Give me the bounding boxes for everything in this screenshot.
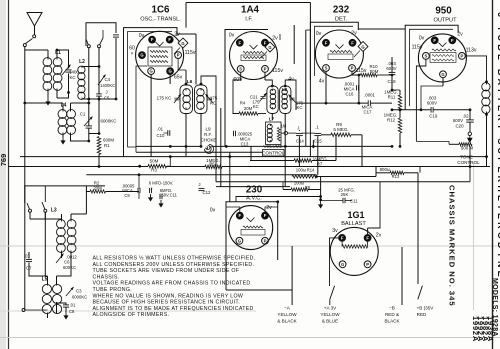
- wire 950 G down: [420, 78, 443, 112]
- terminal +A: [320, 285, 340, 324]
- svg-text:G: G: [441, 72, 444, 77]
- choke L9 spiral: [204, 144, 213, 153]
- coil L5 secondary: [53, 276, 62, 314]
- coil L4 label: [61, 103, 67, 109]
- label J C12: [198, 182, 211, 195]
- IFT1 box right: [195, 85, 208, 114]
- tube 1A4 title: [241, 5, 260, 23]
- coil L1 secondary: [53, 50, 62, 98]
- svg-text:J: J: [297, 126, 299, 131]
- bus y166: [9, 165, 491, 168]
- label .01 C7: [24, 254, 32, 271]
- svg-text:4v: 4v: [288, 77, 294, 83]
- label 2v 1G1: [376, 232, 382, 238]
- IFT1 primary coil: [183, 89, 190, 110]
- pin F1 232: [323, 39, 330, 46]
- ground mid: [318, 198, 323, 208]
- IFT2 secondary coil: [282, 89, 288, 109]
- svg-text:R4: R4: [240, 101, 246, 106]
- svg-text:CONTROL: CONTROL: [262, 151, 284, 156]
- pin G 1G1: [339, 261, 346, 268]
- svg-text:1992A: 1992A: [471, 316, 480, 342]
- resistor R12 1MEG: [384, 109, 402, 148]
- label 115v 950: [412, 45, 423, 51]
- wire IFT1 primary top: [177, 34, 196, 85]
- resistor R4: [239, 112, 258, 115]
- svg-text:G: G: [149, 69, 152, 74]
- wire L1 sec bottom: [57, 91, 70, 98]
- svg-text:R12: R12: [387, 117, 396, 122]
- svg-text:2v: 2v: [351, 31, 357, 37]
- pin P 232: [349, 65, 356, 72]
- tube 1A4 envelope: [230, 32, 278, 80]
- model 1992A: [476, 316, 485, 342]
- svg-text:R11: R11: [388, 94, 396, 99]
- coil L4 primary: [58, 103, 67, 134]
- title 6 TUBE BATTERY SUPERHETERODYNE: [496, 12, 500, 280]
- pin G 950: [440, 71, 447, 78]
- label C4: [105, 77, 111, 82]
- svg-text:L5: L5: [42, 277, 48, 283]
- capacitor C15: [314, 125, 322, 144]
- bus y146: [136, 145, 393, 148]
- svg-text:BECAUSE OF HIGH SERIES RESISTA: BECAUSE OF HIGH SERIES RESISTANCE IN CIR…: [93, 300, 241, 306]
- faint fold line bottom: [0, 337, 500, 339]
- svg-text:C1: C1: [80, 112, 86, 117]
- capacitor C16: [344, 82, 359, 97]
- bus y152: [136, 151, 262, 153]
- pin F2 230: [262, 207, 278, 219]
- 950 internal elements: [430, 43, 456, 63]
- svg-text:5 MEG.: 5 MEG.: [333, 127, 348, 132]
- svg-text:230: 230: [246, 185, 263, 196]
- svg-text:.01: .01: [157, 127, 164, 132]
- svg-text:F: F: [239, 213, 242, 218]
- capacitor C9 mica: [122, 173, 141, 199]
- svg-text:RED: RED: [417, 312, 427, 317]
- coil L3 secondary: [67, 214, 76, 258]
- svg-text:F: F: [264, 40, 267, 45]
- svg-text:C9: C9: [124, 193, 130, 198]
- coil L5 label: [42, 277, 48, 283]
- wire bus y185.9: [25, 186, 105, 214]
- svg-text:0v: 0v: [229, 33, 235, 39]
- wire R7: [250, 156, 336, 166]
- svg-text:2v: 2v: [266, 205, 272, 211]
- pin P 1G1: [364, 261, 371, 268]
- wires between 1A4 and 232: [294, 22, 310, 156]
- wire top bus left: [86, 23, 116, 46]
- 1C6 internal elements: [148, 42, 172, 66]
- wire P232 to R10: [352, 71, 361, 76]
- svg-text:232: 232: [333, 5, 350, 16]
- tube 1C6 title: [140, 5, 181, 23]
- capacitor C17: [362, 92, 376, 114]
- label 115v 232: [356, 68, 367, 74]
- svg-text:C8: C8: [69, 309, 75, 314]
- svg-text:C20: C20: [455, 123, 464, 128]
- tube 232 envelope: [315, 30, 363, 78]
- svg-text:1400KC: 1400KC: [100, 83, 115, 88]
- svg-text:L9: L9: [205, 127, 211, 132]
- label TONE CONTROL: [457, 154, 480, 165]
- capacitor C7: [26, 252, 32, 272]
- svg-text:YELLOW: YELLOW: [277, 312, 297, 317]
- svg-text:0v: 0v: [210, 207, 216, 213]
- svg-text:OUTPUT: OUTPUT: [434, 18, 458, 24]
- pin G 230: [236, 237, 243, 244]
- label .01 C8: [69, 303, 76, 315]
- svg-text:G: G: [168, 69, 171, 74]
- svg-text:P: P: [351, 66, 354, 71]
- svg-text:P: P: [264, 67, 267, 72]
- tube 232 title: [333, 5, 350, 23]
- svg-text:C17: C17: [364, 110, 372, 115]
- svg-text:2v: 2v: [376, 232, 382, 238]
- label 6000KC: [101, 119, 117, 124]
- svg-text:KC: KC: [210, 101, 216, 106]
- model 1992A second: [471, 316, 480, 342]
- label 115v 1C6: [185, 50, 196, 56]
- svg-text:769: 769: [0, 154, 8, 167]
- svg-text:C7: C7: [26, 266, 32, 271]
- trimmer IFT1 right: [206, 94, 218, 106]
- choke L9 label: [201, 127, 217, 143]
- svg-text:6000KC: 6000KC: [72, 295, 87, 300]
- svg-text:C12: C12: [203, 190, 211, 195]
- capacitor C14: [288, 126, 305, 144]
- trimmer C1: [80, 112, 93, 127]
- wire IFT1 bottoms: [185, 114, 203, 157]
- svg-text:113v: 113v: [466, 48, 477, 54]
- wire 1G1 wiring: [368, 182, 380, 235]
- volume coil L7: [267, 124, 272, 142]
- tube 950 shield box: [405, 25, 458, 110]
- svg-text:1G1: 1G1: [347, 210, 364, 220]
- svg-text:F: F: [168, 37, 171, 42]
- svg-text:1C6: 1C6: [152, 5, 171, 16]
- wires 1C6 pins down: [136, 59, 186, 158]
- pin F1 1C6: [149, 36, 156, 43]
- svg-text:R13: R13: [392, 174, 400, 179]
- resistor R8 100ohm: [283, 180, 321, 191]
- capacitor C19 .003 600V: [427, 96, 438, 119]
- 1A4 internal elements: [241, 45, 266, 61]
- wire L1 sec top: [56, 49, 69, 55]
- label 113v 950: [466, 48, 477, 54]
- svg-text:100ω: 100ω: [294, 180, 305, 185]
- pin P 1C6: [175, 52, 182, 59]
- pin P 1A4: [262, 66, 269, 73]
- wire L2 bus join: [98, 98, 101, 101]
- label 0v 230: [210, 207, 216, 213]
- svg-text:2v: 2v: [272, 36, 278, 42]
- wire terminals feed: [226, 246, 292, 290]
- svg-text:F: F: [433, 38, 436, 43]
- wire IFT1 sec top: [200, 76, 216, 103]
- pin F2 1C6: [166, 36, 173, 43]
- IFT2 box left: [267, 86, 278, 114]
- svg-text:R1: R1: [104, 143, 110, 148]
- capacitor C4 trimmer: [98, 35, 119, 101]
- tube 230 box: [226, 200, 279, 290]
- wires IFT2 bottoms: [272, 114, 285, 127]
- svg-text:P: P: [264, 238, 267, 243]
- tube 230 envelope: [229, 206, 273, 250]
- svg-text:C19: C19: [429, 114, 438, 119]
- label 600M R1: [103, 138, 114, 149]
- model 1982A: [481, 316, 490, 342]
- svg-text:20M: 20M: [244, 106, 253, 111]
- resistor R3 50M: [148, 155, 172, 172]
- svg-text:C13: C13: [241, 141, 249, 146]
- IFT2 box right: [280, 86, 291, 114]
- svg-text:J: J: [106, 90, 108, 95]
- wire 950 S down: [416, 59, 426, 141]
- ground C8: [63, 312, 68, 320]
- wire avc bus y103: [296, 102, 392, 104]
- capacitor C10 .01: [157, 127, 170, 139]
- wire R4 left: [233, 95, 266, 114]
- resistor R10 50M: [361, 64, 379, 77]
- coil L3 primary: [57, 214, 66, 258]
- wire switch buses down: [89, 48, 99, 133]
- tube 950 envelope: [418, 34, 466, 82]
- tube 1C6 shield box: [124, 28, 178, 157]
- pin P 230: [262, 237, 269, 244]
- wire antenna down: [24, 47, 26, 203]
- svg-text:F: F: [341, 236, 344, 241]
- svg-text:S: S: [325, 66, 328, 71]
- svg-text:G: G: [341, 262, 344, 267]
- svg-text:C4: C4: [105, 77, 111, 82]
- bus y174.8: [86, 174, 316, 176]
- wire 232 box to 950 box: [358, 28, 405, 30]
- resistor R11 1MEG: [384, 89, 402, 110]
- resistor 100ohm R6: [282, 182, 284, 190]
- wire L4 sec bottom: [71, 134, 89, 141]
- page number 769: [0, 154, 8, 167]
- tube 232 shield box: [310, 22, 358, 80]
- pin F1 230: [226, 207, 243, 219]
- svg-text:500 M: 500 M: [461, 145, 474, 150]
- wire L2 top: [82, 65, 100, 68]
- label 60v 1A4: [233, 77, 243, 83]
- pin F1 1G1: [339, 235, 346, 242]
- svg-text:4v: 4v: [319, 79, 325, 85]
- wire avc row: [226, 246, 292, 247]
- label VOLUME CONTROL: [262, 144, 284, 156]
- pin F1 950: [431, 37, 438, 44]
- svg-text:J: J: [198, 182, 200, 187]
- svg-text:ALIGNMENT IS TO BE MADE AT FRE: ALIGNMENT IS TO BE MADE AT FREQUENCIES I…: [93, 306, 254, 312]
- svg-text:P: P: [366, 262, 369, 267]
- svg-text:C14: C14: [296, 138, 304, 143]
- electrolytic C12 6MFD: [148, 180, 178, 207]
- svg-text:1A4: 1A4: [241, 5, 260, 16]
- pin F2 1G1: [364, 235, 371, 242]
- terminal +B: [417, 173, 435, 317]
- svg-text:G: G: [361, 45, 364, 50]
- trimmer IFT2 right: [289, 95, 304, 111]
- svg-text:800ω: 800ω: [380, 167, 391, 172]
- wire L5 wiring: [25, 203, 71, 318]
- ground L4: [60, 134, 65, 145]
- tube 1A4 shield box: [225, 30, 280, 147]
- wire C18 vertical: [377, 57, 393, 90]
- svg-text:115v: 115v: [412, 45, 423, 51]
- resistor 1M in pot: [277, 124, 287, 142]
- svg-text:R5: R5: [209, 162, 215, 167]
- svg-text:25K: 25K: [341, 192, 349, 197]
- wire P950 right: [465, 56, 488, 83]
- svg-text:KC: KC: [297, 105, 303, 110]
- svg-text:VOLTAGE READINGS ARE FROM CHAS: VOLTAGE READINGS ARE FROM CHASSIS TO IND…: [93, 281, 251, 287]
- label 65v 1C6: [174, 75, 183, 81]
- svg-text:175 KC: 175 KC: [157, 96, 172, 101]
- svg-text:KC: KC: [69, 75, 75, 80]
- svg-text:ALONGSIDE OF TRIMMERS.: ALONGSIDE OF TRIMMERS.: [93, 312, 170, 318]
- 230 internal elements: [241, 218, 265, 236]
- coil L5 primary: [42, 276, 51, 314]
- switch contact S1a: [86, 39, 90, 48]
- svg-text:F: F: [264, 213, 267, 218]
- tube 230 title: [246, 185, 263, 202]
- wire top link bus: [186, 3, 310, 28]
- svg-text:G: G: [238, 238, 241, 243]
- right page edge line: [492, 0, 494, 349]
- label 0v 1A4: [229, 33, 235, 39]
- label 4v 1A4: [288, 77, 294, 83]
- svg-text:F: F: [239, 40, 242, 45]
- svg-text:0v: 0v: [316, 31, 322, 37]
- tube 1G1 title: [341, 210, 366, 227]
- capacitor C13 mica: [234, 131, 253, 147]
- svg-text:50M: 50M: [150, 158, 159, 163]
- wire C14-C15: [302, 132, 315, 134]
- label C3 6000KC: [72, 289, 87, 300]
- antenna: [27, 13, 42, 38]
- svg-text:0v: 0v: [139, 33, 145, 39]
- coil L2 label: [79, 59, 85, 65]
- chassis marked no. 345: [448, 185, 457, 307]
- resistor R5 1MEG: [205, 158, 222, 169]
- label 4v 232: [319, 71, 328, 104]
- svg-text:6 MFD-150V.: 6 MFD-150V.: [149, 180, 174, 185]
- capacitor C20 .02 600V: [453, 110, 474, 132]
- pin F2 232: [349, 39, 356, 46]
- svg-text:I.F.: I.F.: [245, 17, 253, 23]
- svg-text:& BLUE: & BLUE: [322, 318, 338, 323]
- svg-text:C10: C10: [157, 133, 165, 138]
- grid cap G 1C6: [174, 38, 188, 54]
- label 115v 1A4: [272, 68, 283, 74]
- svg-text:6 TUBE BATTERY SUPERHETERODYNE: 6 TUBE BATTERY SUPERHETERODYNE: [496, 12, 500, 280]
- svg-text:65v: 65v: [174, 75, 183, 81]
- capacitor C5: [96, 94, 102, 96]
- svg-text:CHOKE: CHOKE: [201, 138, 217, 143]
- 232 internal elements: [328, 45, 353, 60]
- svg-text:.02: .02: [462, 113, 469, 118]
- svg-text:G: G: [268, 45, 271, 50]
- label .0012 C6 600KC: [63, 255, 77, 270]
- svg-text:2v: 2v: [174, 32, 180, 38]
- svg-text:G: G: [181, 41, 184, 46]
- capacitor C1: [86, 99, 92, 142]
- svg-text:L7: L7: [269, 117, 275, 122]
- speaker coil: [482, 83, 490, 166]
- wire L4 top: [23, 102, 90, 105]
- pin F2 1A4: [262, 39, 269, 46]
- svg-text:C5: C5: [104, 96, 110, 101]
- faint fold line lower-left: [0, 310, 256, 312]
- pin F1 1A4: [236, 39, 243, 46]
- tone pot terminal: [468, 132, 472, 142]
- svg-text:600V: 600V: [427, 101, 437, 106]
- svg-text:50M: 50M: [370, 69, 379, 74]
- tube 950 title: [434, 6, 458, 24]
- label 1400 KC: [69, 70, 79, 81]
- capacitor C18 .003 600V: [386, 61, 396, 84]
- svg-text:WHERE NO VALUE IS SHOWN, READI: WHERE NO VALUE IS SHOWN, READING IS VERY…: [93, 293, 244, 299]
- label 0v 232: [316, 31, 322, 37]
- bus y156.6: [20, 155, 488, 158]
- ground L1: [45, 98, 50, 106]
- resistor R14 100ohm: [292, 167, 376, 178]
- bus y186.6: [216, 186, 290, 188]
- svg-text:J: J: [151, 187, 153, 191]
- pin S 1A4: [237, 66, 244, 73]
- faint fold line mid: [0, 245, 500, 247]
- resistor R13 800ohm: [376, 167, 418, 179]
- notes text block: [93, 256, 256, 319]
- svg-text:DET.: DET.: [335, 17, 348, 23]
- trimmer IFT1 left: [157, 94, 181, 103]
- label J C5: [104, 90, 110, 101]
- grid cap G 1A4: [261, 42, 275, 58]
- wires 1A4 pins: [233, 72, 296, 103]
- wire verticals mid: [216, 103, 420, 202]
- svg-text:P: P: [461, 54, 464, 59]
- svg-text:F: F: [151, 37, 154, 42]
- wire L2 bottom: [82, 98, 116, 101]
- wire tone left: [416, 142, 459, 145]
- svg-text:L3: L3: [51, 208, 57, 214]
- pin G1 1C6: [148, 68, 155, 75]
- capacitor C8: [57, 302, 70, 314]
- svg-text:KC: KC: [253, 104, 259, 109]
- coil L1 primary: [43, 50, 52, 98]
- trimmer C6: [56, 254, 64, 264]
- label L7: [269, 117, 275, 122]
- terminal -B: [384, 247, 402, 323]
- pin S 950: [423, 53, 430, 60]
- wire 230 top: [236, 195, 322, 202]
- tone pot 500M: [459, 143, 473, 151]
- antenna switch lever: [23, 39, 32, 47]
- svg-text:BLACK: BLACK: [384, 318, 400, 323]
- label 3v 1G1: [332, 228, 338, 234]
- grid cap G 232: [354, 42, 368, 57]
- wire R2 y191.5: [86, 180, 139, 193]
- capacitor across L1: [66, 55, 72, 93]
- pin P 950: [459, 53, 466, 60]
- svg-text:−A: −A: [284, 305, 291, 310]
- pin S 232: [323, 65, 330, 72]
- label 2v 1C6: [174, 32, 180, 38]
- svg-text:TUBE PRONG.: TUBE PRONG.: [93, 287, 132, 293]
- wire C16 vertical: [358, 75, 361, 105]
